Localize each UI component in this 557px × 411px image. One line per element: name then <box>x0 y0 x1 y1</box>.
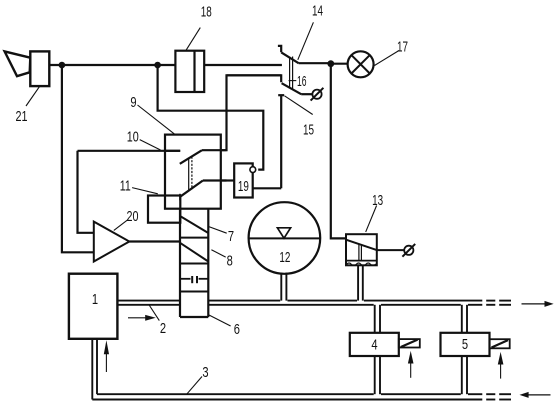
svg-text:21: 21 <box>16 108 28 125</box>
svg-text:6: 6 <box>234 321 240 338</box>
return pipe top line <box>97 393 482 395</box>
pressure switch 18 <box>175 51 204 92</box>
node dot A <box>59 62 66 69</box>
svg-text:18: 18 <box>201 3 212 20</box>
wire amplifier output to valve column <box>129 240 180 242</box>
svg-text:17: 17 <box>397 38 408 55</box>
wire left feed to valve 9 <box>78 150 181 152</box>
valve 9 lower blade <box>180 181 227 201</box>
svg-text:5: 5 <box>462 336 468 353</box>
compressor intake pipe <box>92 339 97 400</box>
flow arrow 2 <box>128 315 156 321</box>
svg-text:9: 9 <box>130 94 136 111</box>
leader 20 <box>114 219 128 230</box>
svg-text:15: 15 <box>303 121 314 138</box>
supply pipe top line <box>117 300 482 302</box>
switch 14 mechanical link <box>290 57 293 89</box>
wire switch to relay valve 9 <box>221 75 281 150</box>
drain valve 13 <box>346 234 404 265</box>
return in arrow <box>520 392 551 398</box>
svg-text:16: 16 <box>297 73 307 90</box>
leader 17 <box>375 51 400 66</box>
wire dot A down to amplifier lower input <box>62 65 94 252</box>
wire down to amplifier upper input <box>78 151 94 233</box>
wire T-cap to valve 19 <box>253 187 282 189</box>
leader 2 <box>149 305 160 321</box>
svg-text:20: 20 <box>127 208 139 225</box>
leader 21 <box>26 87 39 106</box>
wire dot B to valve 19 ball <box>158 65 264 170</box>
brake valve 4 <box>350 333 399 356</box>
wire 18 to switch 14 <box>204 64 282 66</box>
brake valve 5 <box>441 333 490 356</box>
terminal T-cap under switch <box>278 95 284 188</box>
leader 16 <box>289 80 297 82</box>
wire valve 9 to valve 19 <box>221 179 234 181</box>
valve 13 hatch <box>346 261 377 266</box>
svg-text:7: 7 <box>228 228 234 245</box>
intake arrow <box>104 340 109 372</box>
switch 14 lower contact wire <box>227 75 282 82</box>
column divider b <box>180 263 208 265</box>
return pipe bottom line <box>92 399 482 401</box>
wire horn to main line <box>49 64 175 66</box>
svg-text:12: 12 <box>279 249 290 266</box>
exhaust symbol at switch <box>311 88 324 101</box>
valve 5 connector <box>490 339 510 348</box>
supply out arrow <box>522 301 554 307</box>
column divider c <box>180 291 208 293</box>
return pipe dashes <box>486 394 511 399</box>
junction dot C <box>327 60 334 67</box>
leader 9 <box>138 105 175 134</box>
valve 5 arrow <box>498 352 504 379</box>
supply pipe dashes <box>486 301 511 305</box>
svg-text:4: 4 <box>371 337 377 354</box>
valve 4 arrow <box>408 351 414 378</box>
valve 9 upper blade 10 <box>180 150 227 164</box>
relay valve 9 body <box>165 135 221 209</box>
leader 8 <box>211 250 225 257</box>
switch 14 upper contact <box>278 46 331 63</box>
svg-text:8: 8 <box>227 252 233 269</box>
valve 9 link lines <box>189 157 192 191</box>
valve 9 upper contact stub <box>165 150 180 152</box>
leader 3 <box>187 377 202 395</box>
leader lines <box>26 22 399 394</box>
compressor 1 <box>69 274 118 339</box>
svg-text:11: 11 <box>120 177 131 194</box>
port box 11 <box>148 196 180 223</box>
column diagonal 8 <box>180 243 208 262</box>
svg-text:1: 1 <box>92 291 98 308</box>
svg-text:10: 10 <box>127 128 139 145</box>
valve 4 connector <box>399 339 420 347</box>
leader 18 <box>186 28 200 51</box>
valve 4 pipes <box>375 305 380 394</box>
column diagonal 7 <box>180 216 208 233</box>
leader 14 <box>298 22 314 60</box>
svg-text:14: 14 <box>312 2 323 19</box>
tank 12 <box>249 202 321 274</box>
svg-text:2: 2 <box>160 320 166 337</box>
valve column body <box>180 209 208 317</box>
lamp 17 <box>331 51 374 77</box>
amplifier 20 <box>94 222 130 262</box>
throttle symbol in column <box>180 276 208 283</box>
valve 19 <box>234 163 256 197</box>
wire junction C down to valve 13 <box>331 64 346 239</box>
leader 15 <box>285 96 313 115</box>
valve 13 link lines <box>359 244 362 260</box>
exhaust symbol at valve 13 <box>402 244 415 257</box>
svg-text:13: 13 <box>372 192 383 209</box>
svg-text:3: 3 <box>202 364 208 381</box>
valve 5 pipes <box>462 305 467 394</box>
column divider a <box>180 237 208 239</box>
leader 13 <box>366 206 377 232</box>
horn 21 <box>5 51 50 86</box>
valve 13 pipe <box>358 265 363 300</box>
leader 6 <box>209 315 231 326</box>
leader 11 <box>132 188 158 194</box>
svg-text:19: 19 <box>238 178 249 195</box>
switch 14 lower blade <box>282 83 313 94</box>
leader 10 <box>140 140 161 150</box>
supply pipe bottom line <box>117 304 482 306</box>
leader 7 <box>209 227 227 234</box>
column bottom 6 <box>180 316 208 318</box>
node dot B <box>154 62 161 69</box>
tank pipe <box>281 273 286 301</box>
